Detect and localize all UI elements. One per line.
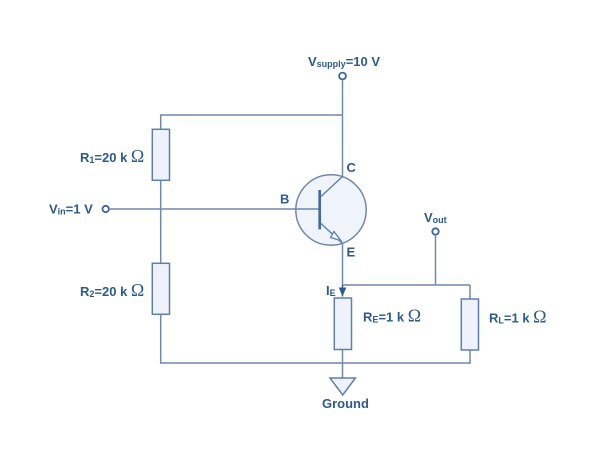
pin label B <box>280 192 289 207</box>
transistor Q1 collector stroke <box>321 177 343 197</box>
svg-text:RL=1 k Ω: RL=1 k Ω <box>489 307 547 327</box>
svg-text:IE: IE <box>326 283 336 298</box>
transistor Q1 body <box>296 175 366 245</box>
value label IE <box>326 283 336 298</box>
value label R2=20 k Ohm <box>80 280 144 300</box>
value label Vsupply=10 V <box>308 54 380 69</box>
value label Vout <box>424 210 447 225</box>
wire supply vertical <box>342 80 344 177</box>
node Vsupply terminal <box>339 73 346 80</box>
transistor Q1 base bar <box>318 190 321 229</box>
node Vin terminal <box>103 206 109 212</box>
wire emitter node horizontal <box>343 284 471 286</box>
svg-text:R2=20 k Ω: R2=20 k Ω <box>80 280 144 300</box>
svg-text:R1=20 k Ω: R1=20 k Ω <box>80 146 144 166</box>
transistor Q1 emitter arrowhead <box>331 231 341 240</box>
svg-text:Ground: Ground <box>322 396 369 411</box>
wire Vout vertical <box>435 235 437 285</box>
resistor RL <box>461 299 478 350</box>
svg-text:E: E <box>347 245 356 260</box>
svg-text:C: C <box>347 160 357 175</box>
svg-text:B: B <box>280 192 289 207</box>
resistor R1 <box>152 129 169 180</box>
svg-text:Vout: Vout <box>424 210 447 225</box>
wire RL bottom <box>469 350 471 364</box>
wire left rail middle <box>160 180 162 263</box>
value label R1=20 k Ohm <box>80 146 144 166</box>
value label Ground <box>322 396 369 411</box>
wire left rail upper <box>160 114 162 129</box>
pin label C <box>347 160 357 175</box>
wire RE bottom <box>342 350 344 379</box>
wire left rail lower <box>160 314 162 363</box>
wire base input <box>109 208 319 210</box>
current arrow IE <box>339 285 347 297</box>
ground <box>330 378 355 395</box>
value label RE=1 k Ohm <box>363 306 421 326</box>
wire top horizontal <box>161 114 343 116</box>
node Vout terminal <box>432 228 438 234</box>
pin label E <box>347 245 356 260</box>
wire base inside body <box>294 208 320 210</box>
transistor Q1 emitter stroke <box>321 224 343 244</box>
wire RL top <box>469 285 471 299</box>
wire bottom rail <box>160 362 471 364</box>
value label RL=1 k Ohm <box>489 307 547 327</box>
svg-text:RE=1 k Ω: RE=1 k Ω <box>363 306 421 326</box>
resistor R2 <box>152 263 169 314</box>
svg-text:Vin=1 V: Vin=1 V <box>49 202 93 217</box>
wire emitter vertical <box>342 244 344 286</box>
svg-text:Vsupply=10 V: Vsupply=10 V <box>308 54 380 69</box>
value label Vin=1 V <box>49 202 93 217</box>
resistor RE <box>334 298 351 350</box>
